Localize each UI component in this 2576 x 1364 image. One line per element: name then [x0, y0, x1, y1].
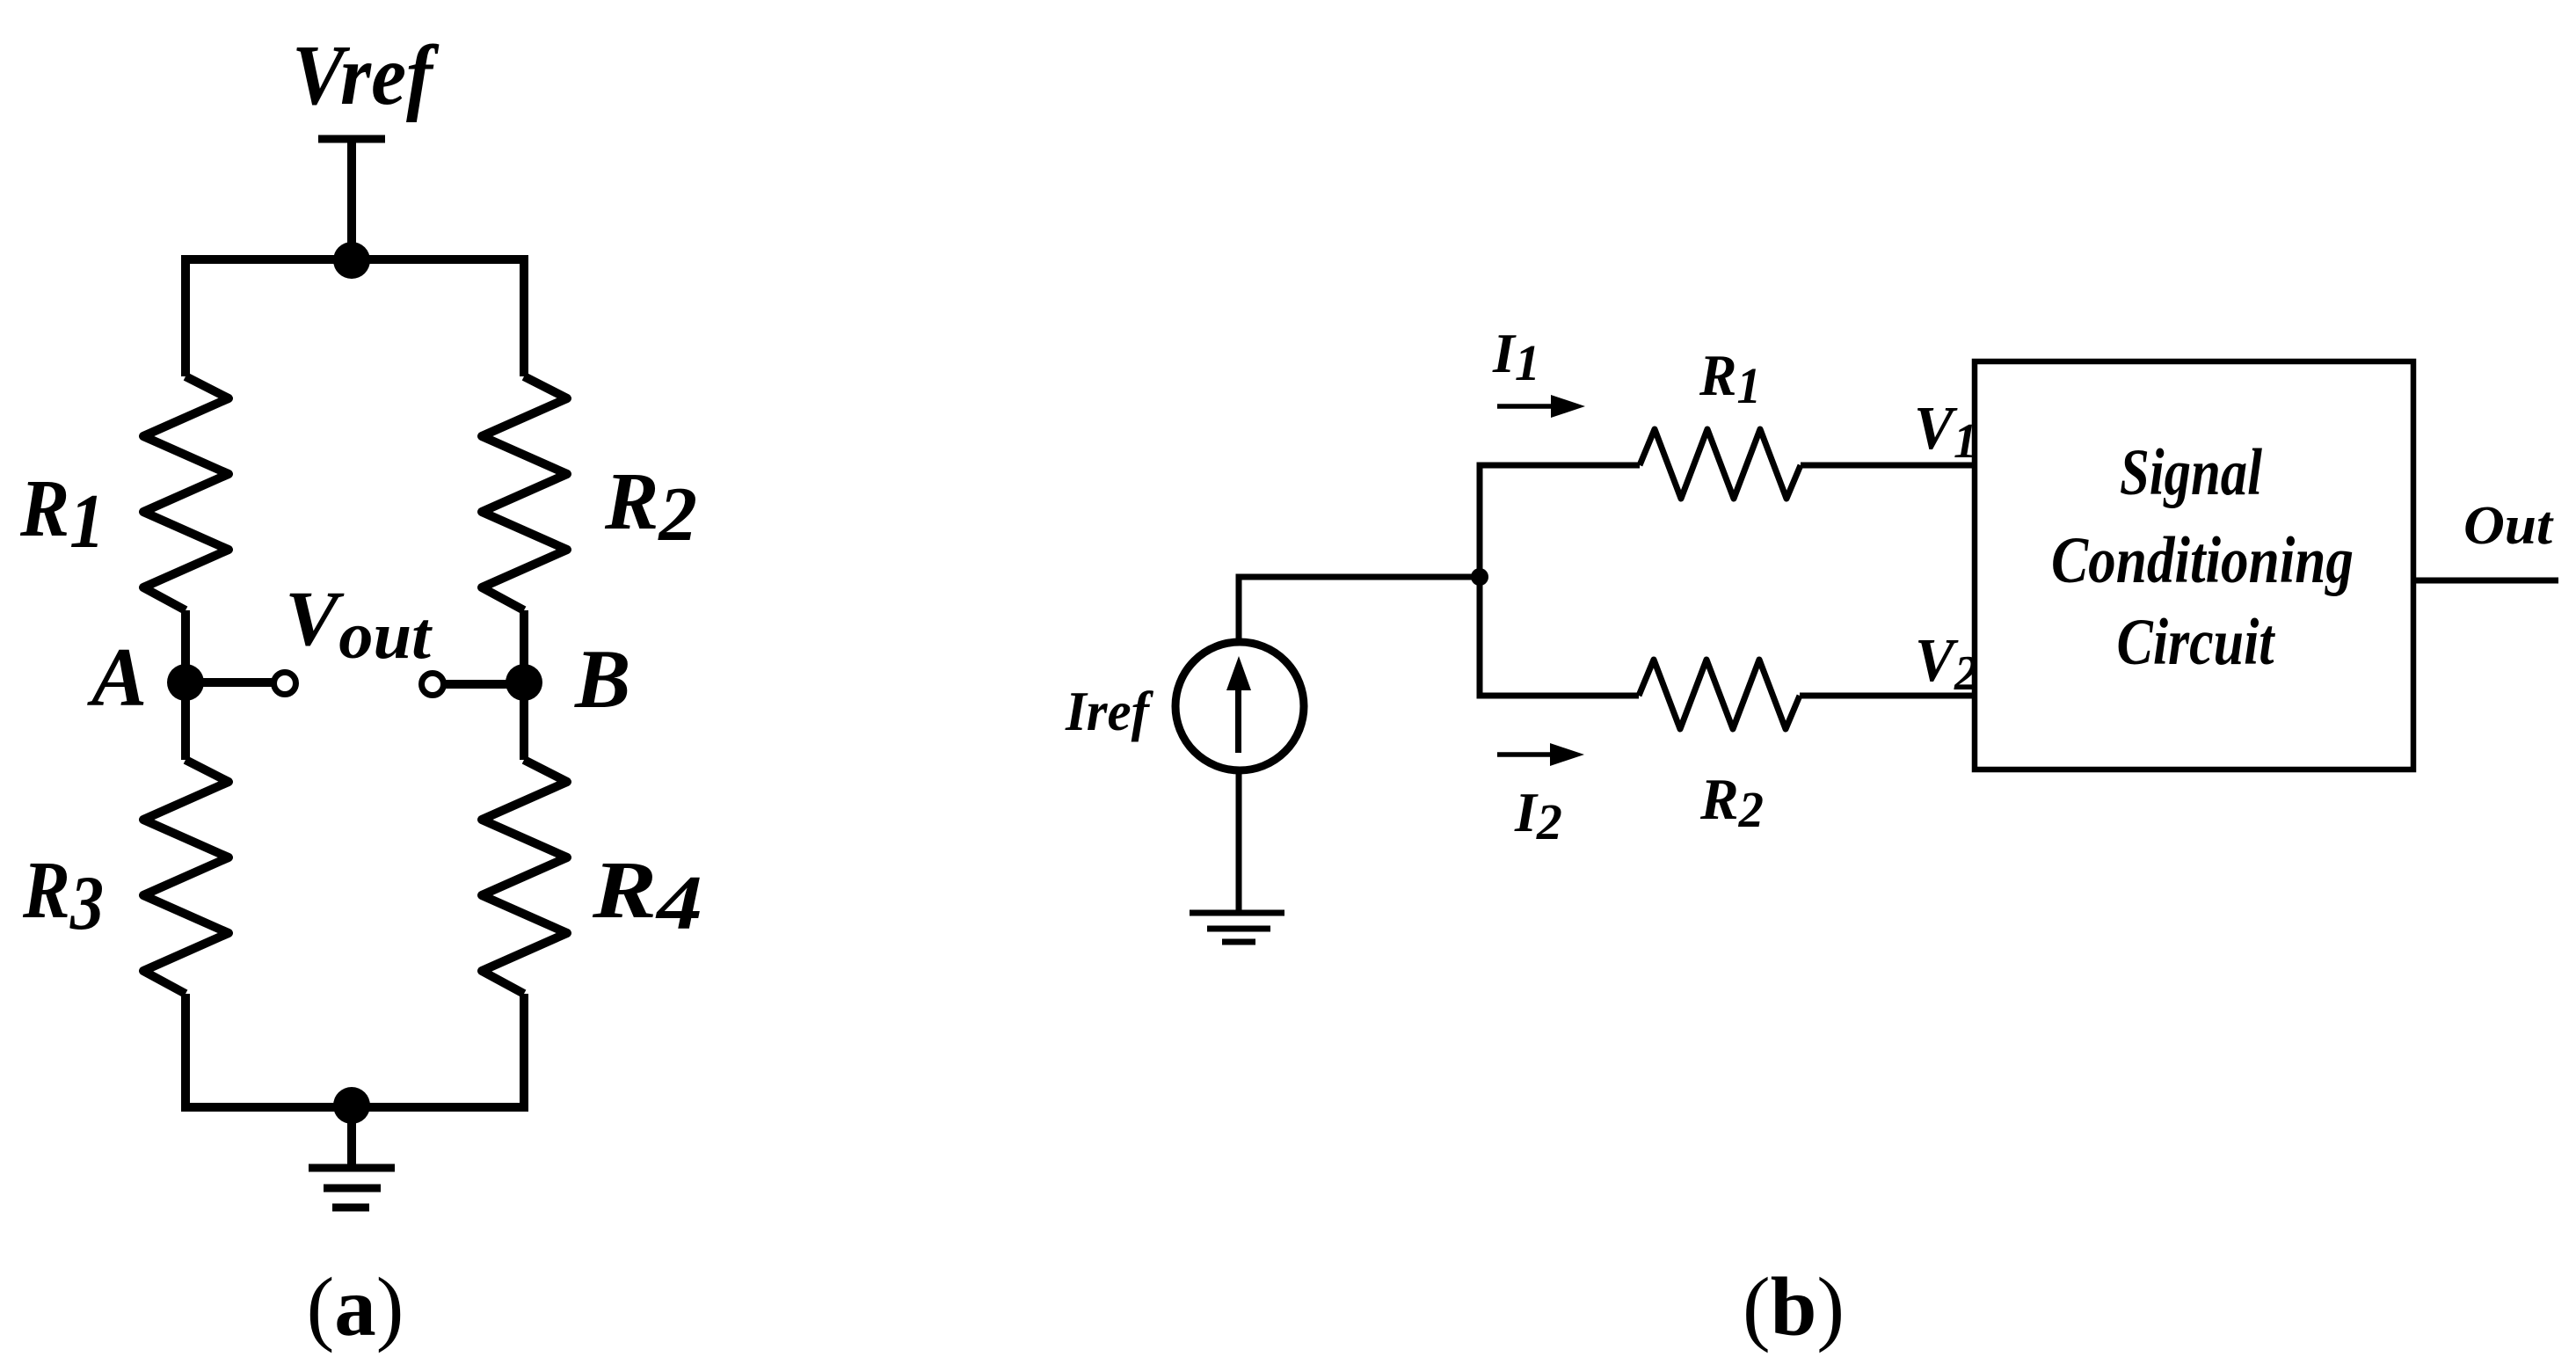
resistor R2 (b) [1639, 660, 1800, 729]
Vout right terminal circle [422, 674, 444, 696]
svg-text:A: A [87, 631, 147, 724]
wire bottom rail [186, 994, 524, 1107]
resistor R1 (b) [1640, 429, 1801, 499]
current source Iref [1175, 642, 1304, 770]
svg-text:R3: R3 [22, 845, 104, 946]
svg-text:Conditioning: Conditioning [2051, 524, 2354, 597]
node B dot [506, 664, 542, 701]
Vout left terminal circle [274, 673, 296, 695]
svg-text:Iref: Iref [1065, 680, 1153, 742]
svg-text:Out: Out [2463, 496, 2554, 556]
resistor R1 [143, 376, 229, 610]
wire left mid [181, 610, 190, 760]
wire A to Vout terminal [186, 678, 272, 687]
signal conditioning circuit text [2051, 436, 2354, 679]
signal conditioning circuit box U1 [1975, 361, 2413, 770]
wire ground stem (a) [347, 1105, 356, 1168]
svg-text:(b): (b) [1743, 1260, 1845, 1353]
wire Out [2413, 578, 2558, 584]
wire top rail left branch [186, 259, 524, 376]
current I1 arrow [1497, 395, 1585, 418]
junction top node dot [333, 242, 370, 279]
wire R1 to box [1801, 463, 1975, 469]
svg-text:R4: R4 [592, 845, 702, 946]
ground (b) [1190, 913, 1284, 942]
junction bottom node dot [333, 1087, 370, 1124]
wire Iref to node [1239, 577, 1480, 641]
wire R2 to box [1800, 693, 1975, 699]
resistor R4 [482, 760, 567, 994]
wire right mid [520, 610, 528, 760]
wire ground stem (b) [1236, 771, 1242, 913]
wire Vref stem [347, 139, 356, 260]
node junction dot (b) [1471, 568, 1488, 586]
node A dot [167, 664, 204, 701]
svg-text:R1: R1 [19, 463, 105, 565]
current source arrow [1226, 656, 1251, 753]
svg-text:R2: R2 [604, 456, 697, 558]
wire branch vertical (b) [1480, 465, 1640, 696]
resistor R2 [482, 376, 567, 610]
svg-text:B: B [574, 632, 630, 726]
svg-text:Circuit: Circuit [2117, 606, 2276, 679]
ground (a) [309, 1168, 395, 1207]
svg-text:(a): (a) [307, 1260, 404, 1353]
resistor R3 [143, 760, 229, 994]
Vref terminal bar [318, 135, 385, 143]
svg-text:Vref: Vref [292, 28, 440, 122]
wire Vout terminal to B [444, 680, 524, 689]
current I2 arrow [1497, 743, 1584, 766]
svg-text:Signal: Signal [2120, 436, 2262, 509]
